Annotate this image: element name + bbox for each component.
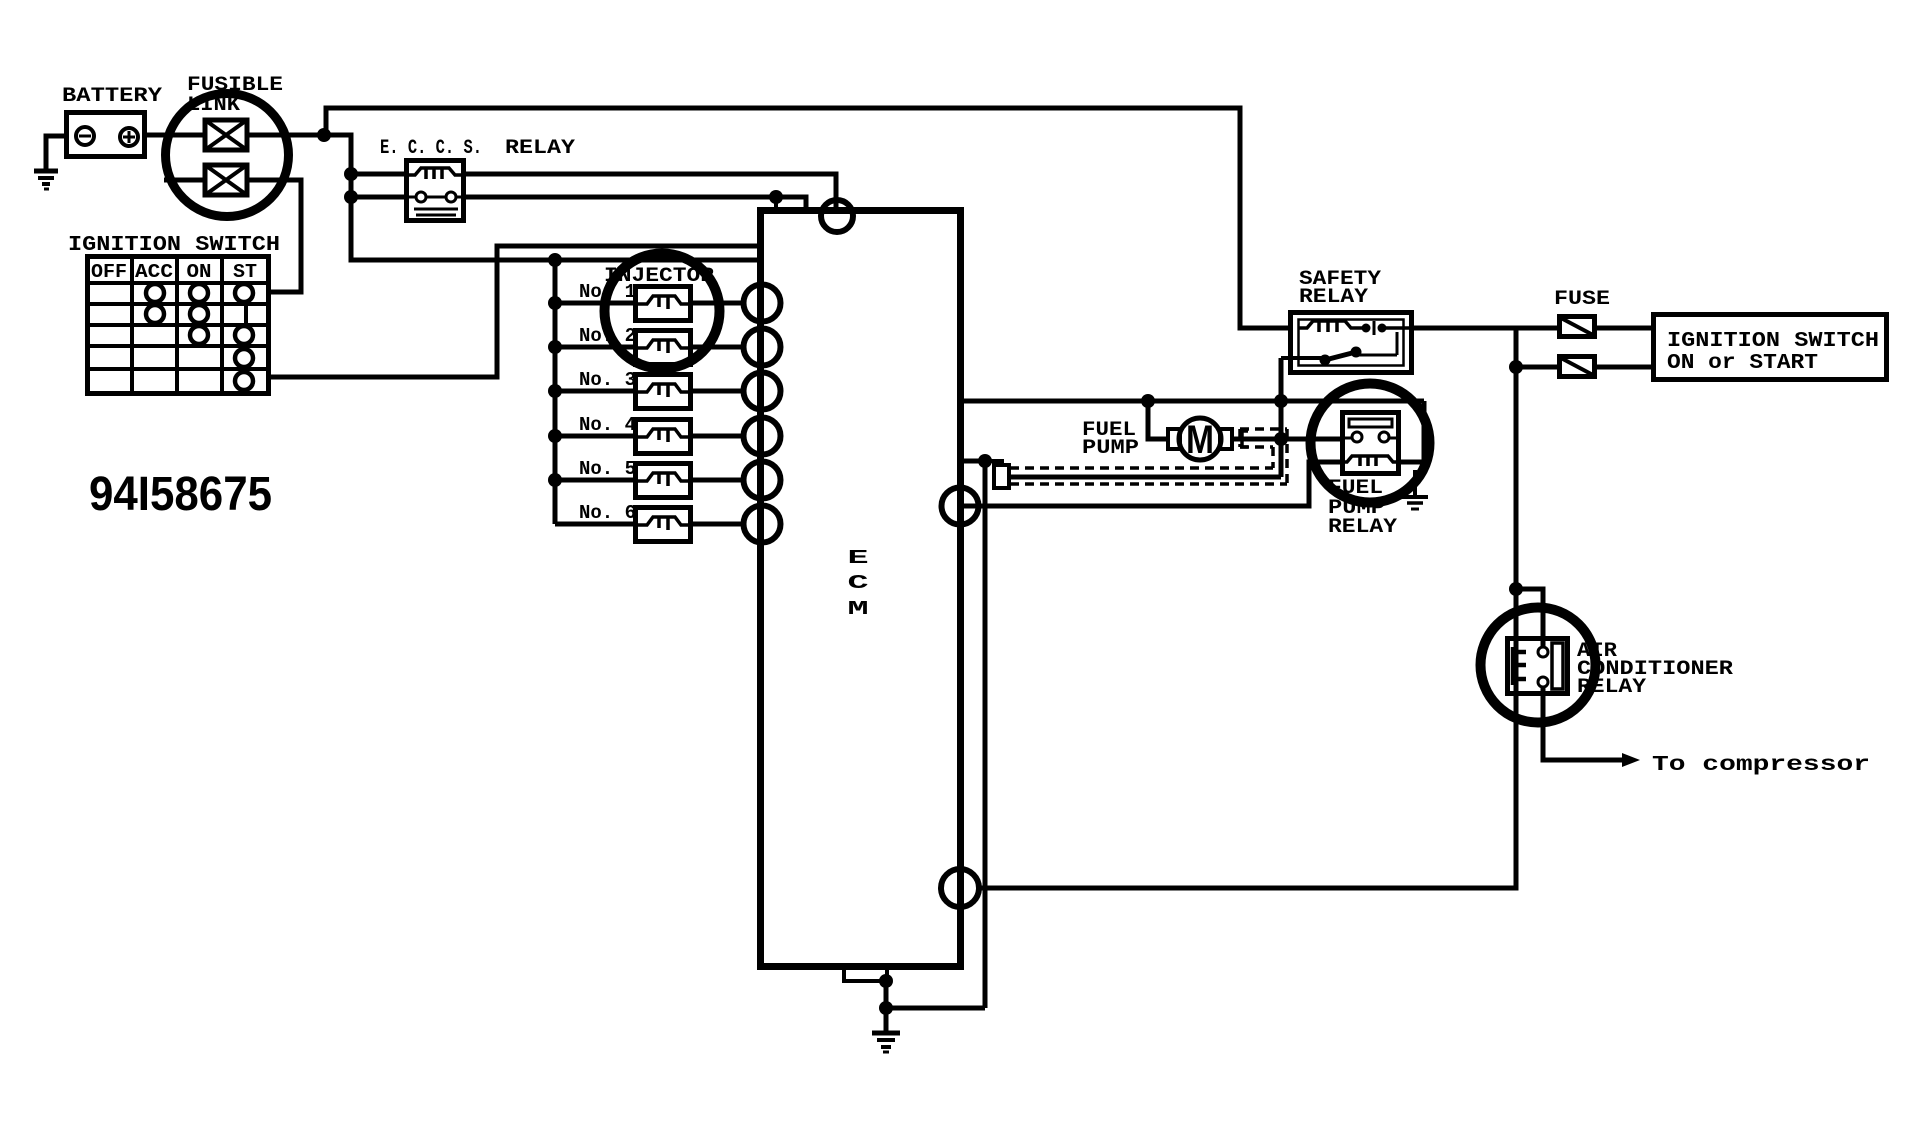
wire safety relay to junctions drop [1279, 358, 1284, 477]
svg-text:No. 3: No. 3 [579, 369, 636, 391]
ignition switch source label [1667, 330, 1879, 375]
svg-text:RELAY: RELAY [1328, 516, 1397, 539]
fusible link circle [166, 94, 289, 217]
wire injector 2 feed [555, 345, 635, 350]
wire AC relay feed jog [1516, 589, 1543, 648]
AC relay contact bar [1552, 643, 1563, 689]
svg-text:No. 2: No. 2 [579, 325, 636, 347]
fuel pump relay pins [1342, 432, 1399, 442]
wire FL1 to junction [247, 133, 326, 138]
AC relay pins [1538, 647, 1548, 687]
fusible link FL2 [205, 165, 247, 195]
AC relay label [1577, 640, 1733, 699]
ECCS relay coil [406, 168, 464, 179]
node injector 1 feed [548, 296, 562, 310]
svg-text:RELAY: RELAY [1577, 676, 1646, 699]
ECM left connector circle 4 [744, 418, 781, 455]
safety relay coil [1298, 321, 1362, 332]
wire safety relay to fuse [1412, 326, 1559, 331]
svg-text:M: M [1186, 418, 1214, 462]
node injector 4 feed [548, 429, 562, 443]
svg-text:ACC: ACC [135, 261, 173, 283]
node AC relay tap [1509, 582, 1523, 596]
AC relay coil [1513, 647, 1526, 685]
svg-text:E: E [847, 548, 868, 570]
wire injector 4 feed [555, 434, 635, 439]
wire ECCS out 1 to ECM top connector [464, 174, 836, 212]
ECM left connector circle 2 [744, 329, 781, 366]
wire to ECCS relay pin 2 [351, 195, 406, 200]
injector group circle [605, 254, 720, 369]
fuel pump relay label [1328, 477, 1397, 539]
fuel pump label [1082, 419, 1139, 460]
wire fuse F1 to ignition switch [1597, 326, 1653, 331]
injector No. 1 label [579, 281, 636, 303]
wire motor to fuel pump relay [1232, 437, 1342, 442]
connector bracket at motor output [1242, 431, 1248, 447]
battery B1 [67, 113, 145, 157]
ECM left connector circle 5 [744, 462, 781, 499]
ignition switch contact circles [146, 284, 253, 390]
fuel pump relay box K2 [1343, 413, 1399, 474]
arrow to compressor [1622, 753, 1640, 767]
wire main vertical accessory bus [978, 328, 1516, 888]
wire battery negative to ground [46, 136, 66, 169]
wire ignition switch ST to ECM [269, 246, 760, 377]
svg-text:RELAY: RELAY [505, 137, 575, 160]
wire to ECCS relay pin 1 [351, 172, 406, 177]
wire injector feed rail [553, 260, 558, 524]
wire injector 1 to ECM [691, 301, 746, 306]
injector No. 4 label [579, 414, 636, 436]
injector 4 coil symbol [635, 429, 691, 442]
wire harness return [1009, 475, 1281, 480]
svg-text:IGNITION SWITCH: IGNITION SWITCH [1667, 330, 1879, 353]
wire injector 2 to ECM [691, 345, 746, 350]
injector No. 2 label [579, 325, 636, 347]
wire ECM to fuel pump feed [958, 399, 1424, 404]
ECM right connector circle fuel pump relay [942, 488, 979, 525]
svg-text:No. 5: No. 5 [579, 458, 636, 480]
injector No. 5 label [579, 458, 636, 480]
injector 6 coil symbol [635, 517, 691, 530]
wire injector 6 feed [555, 522, 635, 527]
svg-text:BATTERY: BATTERY [62, 85, 162, 108]
injector 6 box [636, 508, 691, 542]
ECM left connector circle 6 [744, 506, 781, 543]
injector 3 box [636, 375, 691, 409]
injector 3 coil symbol [635, 384, 691, 397]
wire ECM sense pin [958, 459, 985, 464]
node injector rail top [548, 253, 562, 267]
ignition switch table headers [91, 261, 257, 283]
ignition switch table frame [88, 257, 269, 394]
wire ground bus to sense vertical [886, 1006, 985, 1011]
svg-text:94I58675: 94I58675 [89, 468, 272, 521]
fuel pump relay coil [1342, 456, 1399, 466]
node injector 3 feed [548, 384, 562, 398]
wire injector 5 feed [555, 478, 635, 483]
wire injector 3 feed [555, 389, 635, 394]
wire drop to fuel pump motor [1148, 401, 1168, 439]
wire FL2 to ignition switch table [247, 180, 301, 292]
battery label [62, 85, 162, 108]
safety relay switch arm [1281, 332, 1397, 366]
node injector 2 feed [548, 340, 562, 354]
injector 4 box [636, 420, 691, 454]
svg-text:RELAY: RELAY [1299, 286, 1368, 309]
fuel pump motor M1 [1168, 418, 1232, 462]
wire fuel pump relay right loop [1399, 401, 1424, 462]
wire fusible link FL2 left stub [164, 178, 205, 183]
svg-text:ST: ST [233, 261, 257, 283]
svg-text:PUMP: PUMP [1082, 437, 1139, 460]
node ECCS switch feed [344, 190, 358, 204]
node fuel pump motor drop [1141, 394, 1155, 408]
AC relay box K4 [1508, 639, 1568, 694]
fusible link FL1 [205, 120, 247, 150]
injector 2 box [636, 331, 691, 365]
ECM bottom right connector circle [941, 869, 979, 907]
svg-text:No. 4: No. 4 [579, 414, 636, 436]
svg-text:ON: ON [187, 261, 212, 283]
svg-text:FUSE: FUSE [1554, 288, 1610, 311]
wire injector 4 to ECM [691, 434, 746, 439]
part number 94I58675 [89, 468, 272, 521]
injector 5 coil symbol [635, 473, 691, 486]
to compressor label [1652, 754, 1870, 777]
safety relay label [1299, 268, 1381, 309]
ignition switch label [68, 234, 280, 257]
ignition switch source box [1654, 315, 1887, 380]
node ground bus junction [879, 1001, 893, 1015]
wire injector 1 feed [555, 301, 635, 306]
wire top rail to safety relay [326, 108, 1290, 328]
ground battery [34, 171, 58, 189]
injector 2 coil symbol [635, 340, 691, 353]
injector No. 6 label [579, 502, 636, 524]
AC relay circle [1481, 608, 1596, 723]
ECM label [847, 548, 868, 621]
node injector 5 feed [548, 473, 562, 487]
ECCS relay contact pins [406, 192, 464, 202]
ignition switch table grid [87, 256, 269, 394]
fusible link label [187, 74, 283, 117]
wire injector 3 to ECM [691, 389, 746, 394]
injector 1 box [636, 287, 691, 321]
injector label [604, 265, 714, 288]
svg-text:IGNITION SWITCH: IGNITION SWITCH [68, 234, 280, 257]
node ECM ground notch [879, 974, 893, 988]
injector 5 box [636, 464, 691, 498]
wire battery feed to ECCS and injector rail [324, 135, 760, 260]
wire fuse F2 to ignition switch [1597, 365, 1653, 370]
wire AC relay to compressor [1543, 687, 1624, 760]
node fuse F2 tap [1509, 360, 1523, 374]
fuse F1 [1560, 317, 1595, 337]
svg-text:M: M [847, 599, 868, 621]
fuel pump relay circle [1311, 384, 1430, 503]
node battery feed junction [317, 128, 331, 142]
wire to fuse F2 [1516, 365, 1559, 370]
ground fuel pump relay [1402, 470, 1428, 509]
ground ECM [872, 1033, 900, 1052]
svg-text:No. 6: No. 6 [579, 502, 636, 524]
node ECCS coil feed [344, 167, 358, 181]
wire injector 5 to ECM [691, 478, 746, 483]
node safety relay drop junction [1274, 394, 1288, 408]
fuel pump relay top bar [1349, 419, 1392, 427]
ECCS relay label [380, 137, 575, 160]
svg-text:ON or START: ON or START [1667, 352, 1818, 375]
ECM ground notch [844, 966, 887, 981]
ECM left connector circle 1 [744, 285, 781, 322]
wire battery positive to fusible link [145, 133, 205, 138]
safety relay box K3 [1291, 313, 1412, 373]
wire ECCS out 2 to ECM top [464, 197, 806, 211]
wire ECM ground drop [884, 981, 889, 1032]
ECM box U1 [761, 211, 961, 967]
node ECM sense junction [978, 454, 992, 468]
wire sense vertical to ground bus [983, 461, 988, 1008]
ECM left connector circle 3 [744, 373, 781, 410]
svg-text:To compressor: To compressor [1652, 754, 1870, 777]
node ECCS out 2 [769, 190, 783, 210]
injector No. 3 label [579, 369, 636, 391]
ECCS relay bottom contact [414, 209, 458, 215]
dashed harness outline [1010, 429, 1287, 484]
injector 1 coil symbol [635, 296, 691, 309]
node motor return junction [1274, 432, 1288, 446]
ECM top connector circle [821, 200, 853, 232]
wire injector 6 to ECM [691, 522, 746, 527]
svg-text:No. 1: No. 1 [579, 281, 636, 303]
fuse F2 [1560, 357, 1595, 377]
connector hook at ECM sense [985, 461, 1009, 488]
wire ECM to fuel pump relay coil [960, 462, 1342, 506]
fuse label [1554, 288, 1610, 311]
svg-text:C: C [847, 573, 868, 595]
svg-text:OFF: OFF [91, 261, 127, 283]
safety relay contact [1362, 321, 1413, 335]
svg-text:E. C. C. S.: E. C. C. S. [380, 137, 482, 160]
ECCS relay box K1 [407, 161, 464, 221]
